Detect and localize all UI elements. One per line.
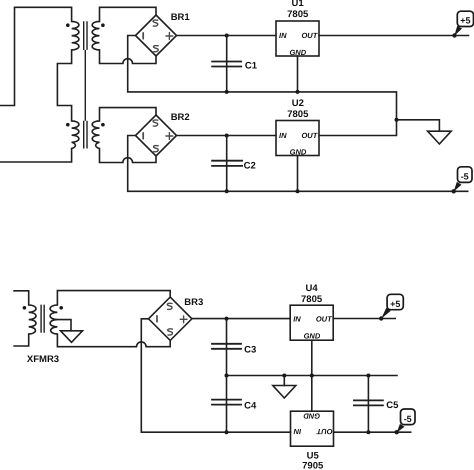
svg-text:IN: IN <box>279 31 287 40</box>
svg-text:IN: IN <box>293 314 301 323</box>
svg-text:BR2: BR2 <box>171 112 190 123</box>
svg-text:OUT: OUT <box>316 314 333 323</box>
svg-text:C3: C3 <box>244 344 256 355</box>
svg-text:GND: GND <box>289 48 306 57</box>
svg-text:U1: U1 <box>292 0 305 9</box>
svg-text:7805: 7805 <box>287 9 309 20</box>
svg-text:XFMR3: XFMR3 <box>27 354 59 365</box>
svg-text:U2: U2 <box>292 98 304 109</box>
svg-text:C1: C1 <box>245 60 258 71</box>
svg-text:C4: C4 <box>244 401 257 412</box>
svg-text:C5: C5 <box>386 400 399 411</box>
svg-text:7805: 7805 <box>287 109 309 120</box>
svg-text:GND: GND <box>303 412 320 421</box>
svg-text:BR1: BR1 <box>171 12 191 23</box>
svg-text:+5: +5 <box>390 299 400 309</box>
svg-text:IN: IN <box>279 131 287 140</box>
svg-text:OUT: OUT <box>315 427 332 436</box>
svg-text:7905: 7905 <box>302 461 324 470</box>
svg-text:U4: U4 <box>306 283 319 294</box>
svg-text:-5: -5 <box>404 414 412 424</box>
svg-text:GND: GND <box>290 147 307 156</box>
svg-text:IN: IN <box>293 427 301 436</box>
svg-text:+5: +5 <box>460 16 470 26</box>
svg-text:OUT: OUT <box>301 31 318 40</box>
svg-text:U5: U5 <box>307 450 320 461</box>
svg-text:C2: C2 <box>244 160 256 171</box>
svg-text:7805: 7805 <box>301 294 323 305</box>
svg-text:-5: -5 <box>461 172 469 182</box>
svg-text:OUT: OUT <box>301 131 318 140</box>
svg-text:GND: GND <box>304 332 321 341</box>
svg-text:BR3: BR3 <box>184 297 203 308</box>
